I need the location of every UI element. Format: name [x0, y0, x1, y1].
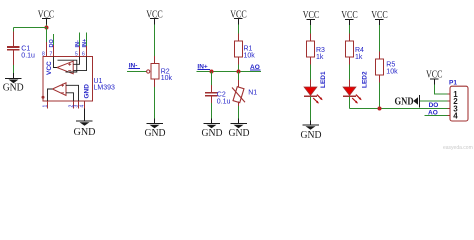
svg-text:GND: GND [395, 97, 414, 108]
wire VCC to R5 [379, 25, 381, 51]
svg-text:easyeda.com: easyeda.com [443, 145, 473, 151]
power port VCC (section 3) [230, 9, 247, 24]
wire pin7 to output [54, 57, 57, 68]
svg-text:DO: DO [49, 39, 55, 48]
wire C2 to GND [211, 103, 213, 119]
pin 1 stub [47, 101, 49, 109]
power port VCC (P1) [426, 70, 443, 85]
svg-text:6: 6 [82, 52, 85, 58]
wire VCC to R2 [154, 25, 156, 57]
wire R4 to LED2 [349, 57, 351, 65]
sensor N1 [232, 72, 257, 107]
op-amp U1 LM393 body [42, 52, 93, 102]
net label AO [250, 64, 261, 71]
wire pin6 to - input [73, 57, 86, 71]
junction R1/N1 branch [237, 70, 241, 74]
wire GND to P1 pin 2 [420, 100, 447, 102]
wire R2 to GND [154, 79, 156, 87]
ground (U1 pin 4) [74, 121, 96, 138]
connector P1 [448, 79, 469, 121]
power port VCC (section 1) [38, 9, 55, 24]
wire horizontal to C1 [14, 27, 47, 29]
op-amp U1 comparator B triangle [57, 61, 73, 74]
op-amp U1 comparator A triangle [52, 83, 66, 96]
svg-text:LM393: LM393 [94, 85, 116, 92]
resistor R5 [376, 59, 399, 75]
svg-text:8: 8 [42, 52, 45, 58]
svg-text:1k: 1k [355, 54, 363, 61]
wire C1 to GND [13, 65, 15, 73]
wire R1 to IN+ rail [238, 57, 240, 65]
svg-text:GND: GND [229, 128, 250, 139]
pin 2 stub [73, 101, 75, 109]
power port VCC (section 2) [146, 9, 163, 24]
wire DO rail [350, 108, 448, 110]
wire pin5 to + input [73, 57, 79, 65]
svg-text:1: 1 [43, 105, 49, 108]
svg-text:GND: GND [84, 84, 91, 99]
svg-text:10k: 10k [386, 68, 398, 75]
net label IN+ [197, 63, 210, 70]
ground (R2) [145, 119, 166, 140]
wire VCC down to U1 pin 8 [46, 28, 48, 43]
wire N1 to GND [238, 106, 240, 119]
wire VCC to R1 [238, 25, 240, 34]
wire VCC to junction [46, 25, 48, 28]
LED LED2 [343, 71, 369, 104]
node IN- at U1 pin 6 [82, 33, 88, 57]
resistor R3 [307, 41, 326, 61]
wire LED1 to GND [310, 96, 312, 120]
svg-text:10k: 10k [244, 52, 256, 59]
wire - input to pin2 [66, 93, 74, 101]
svg-text:IN+: IN+ [82, 39, 88, 48]
wire IN+ rail [197, 71, 262, 73]
svg-text:LED1: LED1 [320, 71, 327, 88]
node IN+ at U1 pin 5 [75, 33, 81, 57]
wire LED2 to DO rail [349, 96, 351, 108]
resistor R1 [235, 41, 256, 59]
junction C2 branch [210, 70, 214, 74]
ground (C1) [3, 73, 24, 94]
svg-text:GND: GND [74, 127, 96, 138]
power port VCC (section 5) [341, 10, 358, 25]
svg-text:4: 4 [80, 105, 86, 108]
wire feedback loop comparator B [58, 60, 77, 72]
wire output to pin1 [48, 89, 53, 101]
pin 4 stub to ground [84, 101, 86, 109]
node DO at U1 pin 7 [49, 34, 55, 57]
svg-text:0.1u: 0.1u [21, 53, 35, 60]
ground (LED1) [301, 121, 322, 141]
power port VCC (section 4) [303, 10, 320, 25]
svg-text:GND: GND [301, 130, 322, 141]
svg-text:1k: 1k [316, 54, 324, 61]
svg-text:GND: GND [3, 83, 24, 94]
svg-text:IN-: IN- [75, 40, 81, 48]
wire VCC to R4 [349, 25, 351, 34]
wire + input to pin3 [66, 85, 79, 101]
wire IN- to R2 wiper [127, 71, 146, 73]
wire VCC to P1 pin 1 [435, 85, 448, 95]
capacitor C2 [205, 72, 231, 106]
junction VCC node [45, 26, 49, 30]
pin circle R2 wiper [147, 70, 150, 73]
svg-text:P1: P1 [449, 79, 457, 86]
resistor R2 [151, 64, 172, 83]
pin 3 stub [78, 101, 80, 109]
svg-text:5: 5 [75, 52, 78, 58]
svg-text:4: 4 [453, 112, 458, 121]
resistor R4 [346, 41, 365, 61]
capacitor C1 [7, 28, 35, 66]
svg-text:N1: N1 [248, 90, 257, 97]
svg-text:0.1u: 0.1u [217, 98, 231, 105]
svg-text:10k: 10k [161, 75, 173, 82]
svg-text:LED2: LED2 [362, 71, 369, 88]
wire R3 to LED1 [310, 57, 312, 65]
wire R5 to DO rail [379, 75, 381, 83]
LED LED1 [304, 71, 327, 104]
wire VCC to R3 [310, 25, 312, 34]
svg-text:GND: GND [202, 128, 223, 139]
junction on U1 left edge [42, 96, 45, 99]
svg-text:DO: DO [429, 102, 439, 109]
svg-text:GND: GND [145, 128, 166, 139]
ground (C2) [202, 119, 223, 140]
net label IN- [129, 63, 140, 70]
power port GND at P1 pin 2 [395, 95, 420, 107]
ground (N1) [229, 119, 250, 140]
svg-text:VCC: VCC [46, 61, 53, 75]
wire AO to P1 pin 4 [425, 115, 448, 117]
svg-text:7: 7 [50, 52, 53, 58]
junction R5 on DO rail [378, 107, 382, 111]
power port VCC (section 6) [371, 10, 388, 25]
